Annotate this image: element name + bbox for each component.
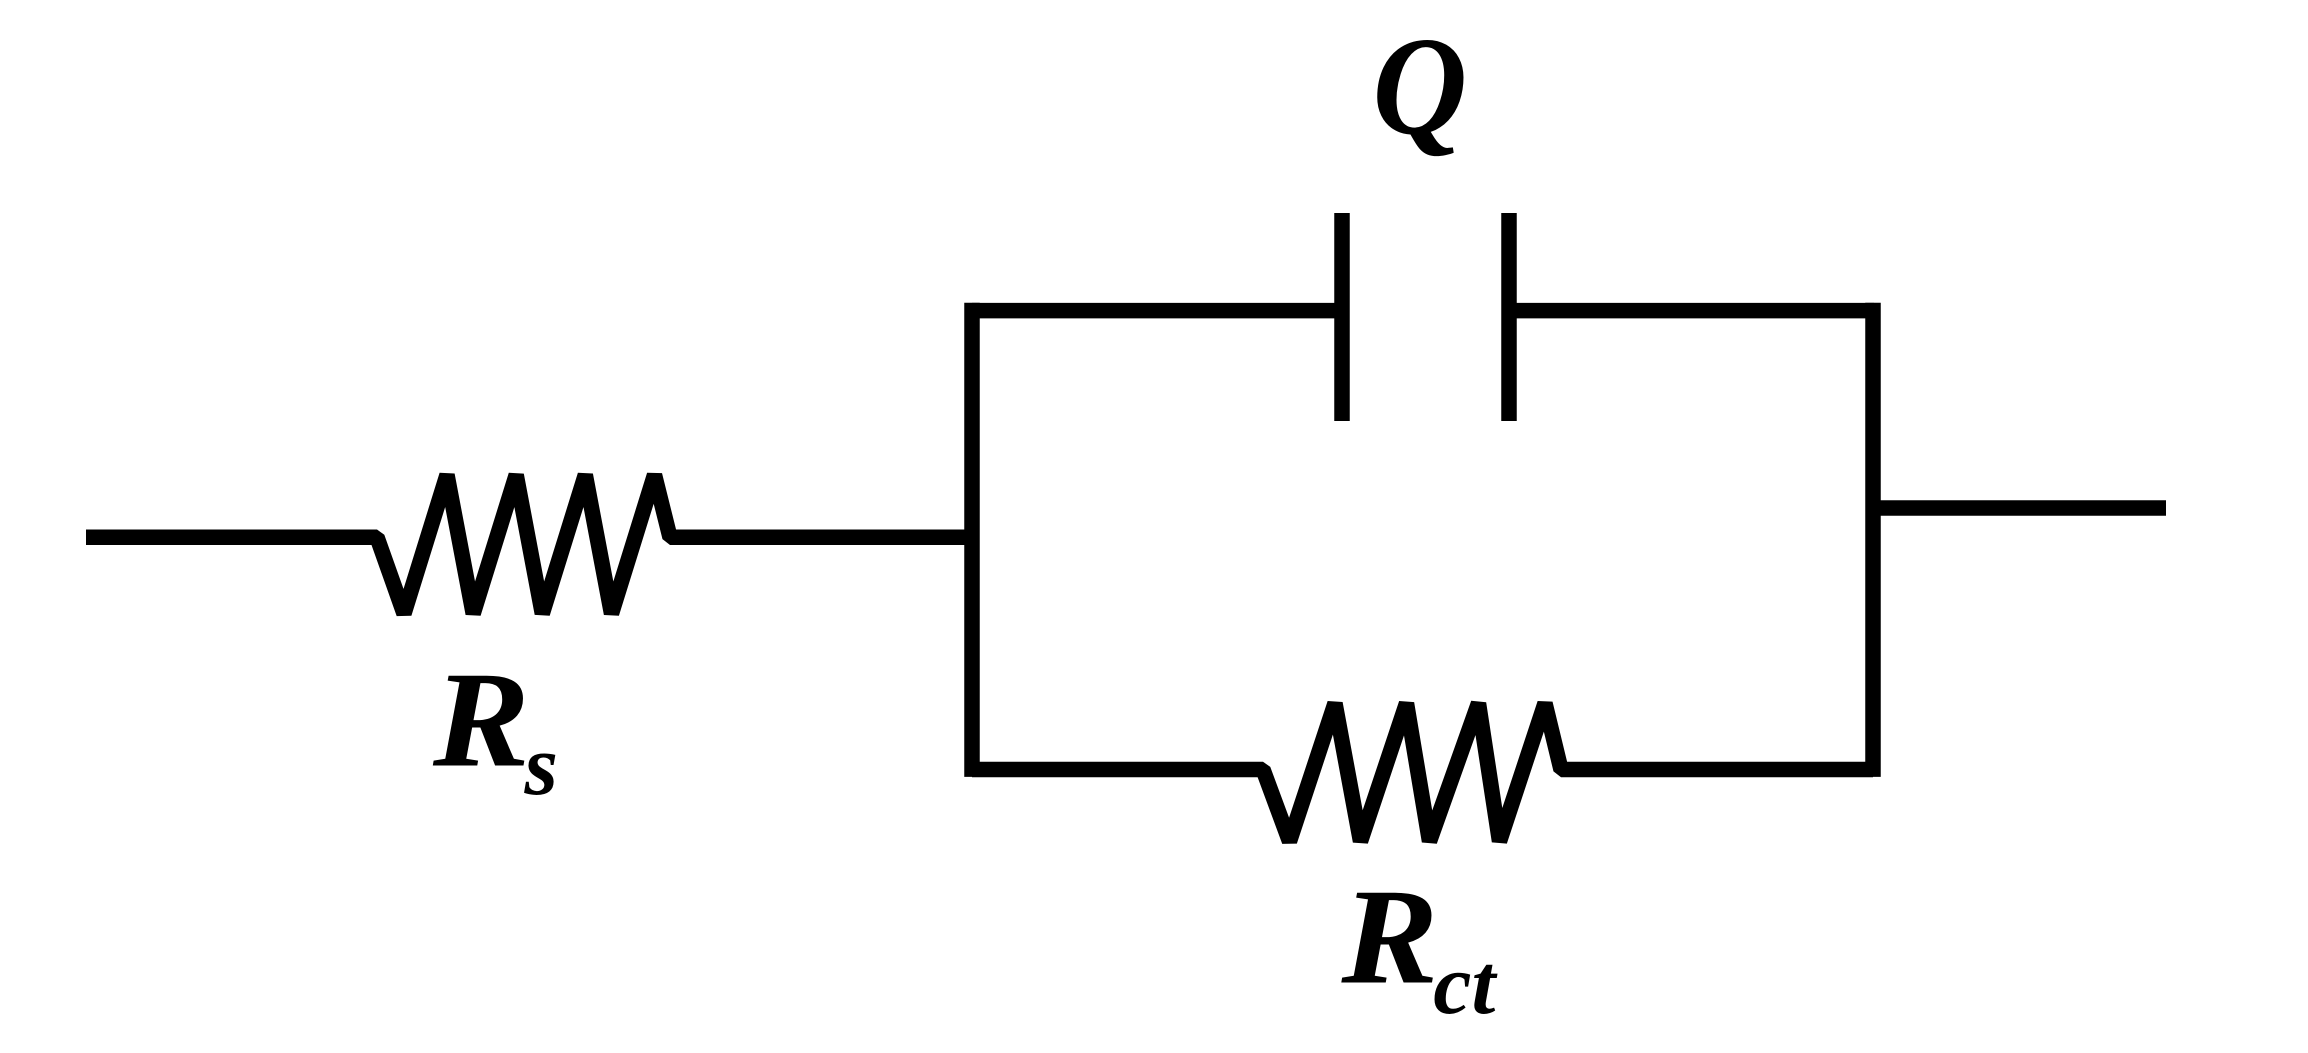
node B : right vertical bus of parallel network [1865, 303, 1881, 777]
svg-text:ct: ct [1433, 936, 1498, 1032]
wire top branch left segment [972, 303, 1342, 319]
wire top branch right segment [1509, 303, 1874, 319]
capacitor Q left plate [1334, 213, 1350, 421]
wire right lead [1873, 500, 2166, 516]
wire bottom branch with resistor R_ct zigzag [972, 703, 1873, 841]
svg-text:R: R [432, 643, 530, 795]
svg-text:s: s [524, 717, 558, 813]
capacitor Q right plate [1501, 213, 1517, 421]
svg-text:R: R [1340, 860, 1438, 1012]
svg-text:Q: Q [1373, 9, 1468, 164]
wire left lead with resistor R_s zigzag then wire to node A [86, 475, 972, 614]
node A : left vertical bus of parallel network [964, 303, 980, 777]
